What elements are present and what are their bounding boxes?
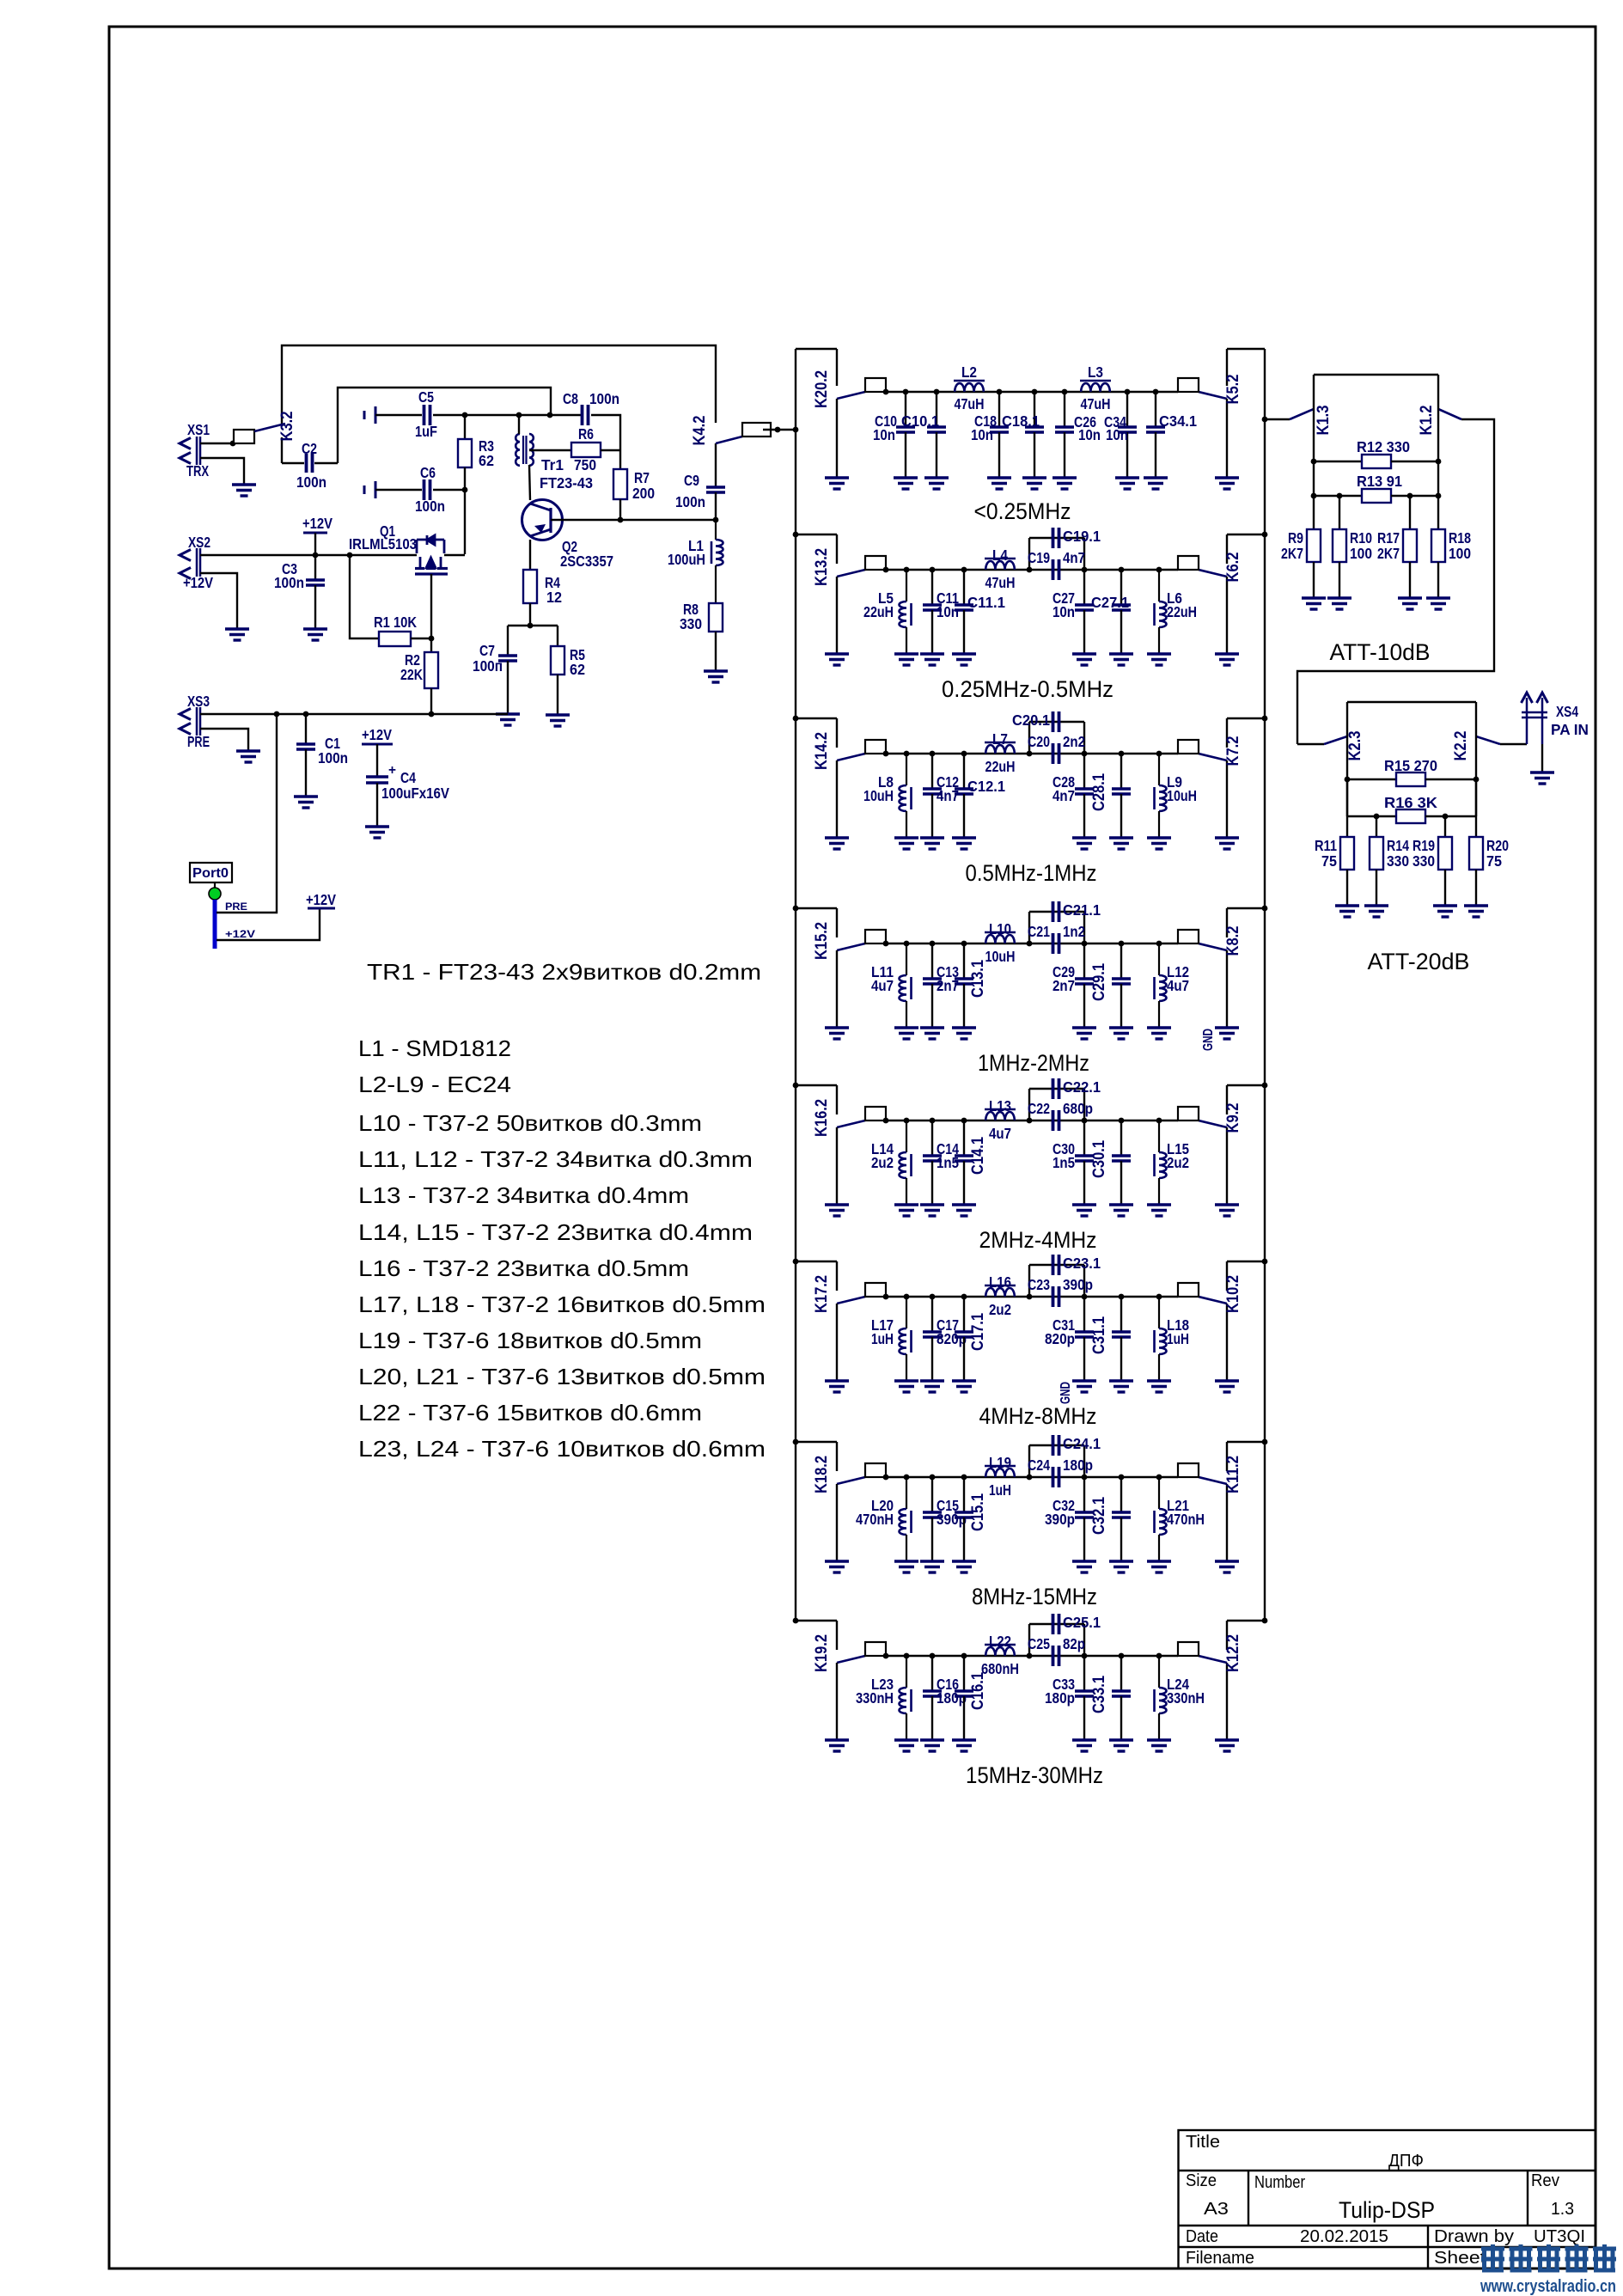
svg-text:+12V: +12V	[225, 928, 255, 940]
ground	[1426, 598, 1450, 609]
junction	[1119, 941, 1125, 947]
capacitor C13 (2n7)	[923, 943, 942, 1028]
svg-text:C2: C2	[302, 440, 317, 457]
junction	[1119, 1118, 1125, 1124]
junction	[793, 427, 799, 433]
capacitor C14.1	[955, 1121, 973, 1205]
resistor R10 (100)	[1333, 496, 1346, 598]
svg-text:GND: GND	[1059, 1382, 1073, 1404]
svg-text:100n: 100n	[415, 498, 445, 515]
junction bus/K14.2	[793, 716, 799, 722]
svg-text:XS3: XS3	[187, 693, 210, 710]
svg-text:C18.1: C18.1	[1002, 412, 1040, 430]
junction	[547, 412, 553, 418]
ground	[987, 478, 1011, 489]
svg-text:10uH: 10uH	[1167, 787, 1197, 804]
relay contact K13.2	[796, 534, 886, 654]
svg-text:330: 330	[1387, 852, 1409, 870]
ground (K18.2)	[825, 1561, 849, 1572]
connector XS3 (PRE)	[180, 707, 200, 736]
svg-text:+: +	[388, 763, 396, 778]
junction	[1374, 814, 1380, 820]
wire emitter node	[508, 625, 558, 626]
resistor R2 (22K)	[424, 638, 438, 714]
capacitor C32 (390p)	[1075, 1477, 1094, 1561]
svg-text:PRE: PRE	[225, 901, 247, 913]
svg-text:L2: L2	[961, 363, 977, 381]
capacitor C16.1	[955, 1656, 973, 1740]
svg-text:XS4: XS4	[1556, 703, 1578, 720]
svg-text:L11, L12 - T37-2 34витка d0.3m: L11, L12 - T37-2 34витка d0.3mm	[358, 1146, 753, 1172]
svg-text:100п: 100п	[473, 657, 503, 675]
ground	[1147, 1205, 1171, 1216]
ground	[952, 838, 976, 849]
svg-text:C22: C22	[1028, 1100, 1050, 1117]
ground	[1072, 1205, 1096, 1216]
svg-text:C29.1: C29.1	[1090, 963, 1108, 1001]
svg-text:R20: R20	[1486, 837, 1509, 854]
junction	[1153, 389, 1159, 395]
svg-text:C34.1: C34.1	[1159, 412, 1197, 430]
junction	[903, 389, 909, 395]
junction	[618, 517, 624, 523]
relay contact K15.2	[796, 908, 886, 1028]
svg-text:C8: C8	[563, 390, 578, 407]
node stub (C6 input)	[363, 485, 366, 494]
ground	[1053, 478, 1077, 489]
capacitor C11.1	[955, 570, 973, 654]
wire Tr1 primary top	[518, 415, 520, 434]
svg-text:R6: R6	[578, 425, 594, 443]
svg-text:A3: A3	[1204, 2200, 1229, 2219]
svg-text:C14.1: C14.1	[969, 1137, 987, 1175]
svg-text:C21.1: C21.1	[1063, 901, 1101, 919]
relay contact K7.2	[1178, 718, 1265, 838]
transistor Q1 (IRLML5103)	[415, 535, 448, 574]
junction	[1407, 493, 1413, 499]
ground	[1147, 654, 1171, 665]
svg-text:L2-L9 - EC24: L2-L9 - EC24	[358, 1072, 511, 1097]
transistor Q2 (2SC3357)	[522, 500, 563, 540]
ground (K7.2)	[1215, 838, 1239, 849]
svg-text:R19: R19	[1412, 837, 1435, 854]
junction	[930, 751, 936, 757]
svg-text:390p: 390p	[1045, 1511, 1075, 1528]
ground	[920, 1561, 944, 1572]
svg-text:www.crystalradio.cn: www.crystalradio.cn	[1480, 2277, 1616, 2296]
inductor L9 (10uH)	[1155, 754, 1167, 838]
ground (K15.2)	[825, 1028, 849, 1039]
power +12V (port branch)	[308, 907, 335, 910]
inductor L4 (47uH)	[985, 559, 1016, 570]
svg-text:47uH: 47uH	[985, 574, 1016, 591]
ground	[1072, 1028, 1096, 1039]
svg-text:K2.2: K2.2	[1452, 731, 1470, 761]
wire stub to C6	[375, 489, 422, 491]
resistor R6 (750)	[571, 443, 620, 457]
svg-text:L3: L3	[1088, 363, 1103, 381]
wire filter line	[886, 1655, 1178, 1657]
capacitor C18	[990, 392, 1009, 478]
wire filter line	[886, 753, 1178, 754]
svg-text:C15.1: C15.1	[969, 1493, 987, 1531]
ground	[894, 478, 918, 489]
capacitor C7 (100n)	[498, 626, 517, 714]
junction bus/K9.2	[1262, 1083, 1268, 1089]
ground	[1144, 478, 1168, 489]
svg-text:C33.1: C33.1	[1090, 1676, 1108, 1713]
relay contact K16.2	[796, 1085, 886, 1205]
svg-text:10n: 10n	[1106, 426, 1128, 443]
capacitor C24.1	[1052, 1435, 1055, 1456]
ground (K6.2)	[1215, 654, 1239, 665]
junction	[1027, 1475, 1033, 1481]
svg-text:100n: 100n	[274, 574, 304, 591]
svg-text:C20.1: C20.1	[1012, 711, 1050, 729]
svg-text:100uFx16V: 100uFx16V	[381, 785, 449, 802]
ground	[894, 1028, 918, 1039]
relay contact K8.2	[1178, 908, 1265, 1028]
ground	[294, 797, 318, 808]
capacitor C23 (390p)	[1029, 1265, 1084, 1307]
capacitor C28 (4n7)	[1075, 754, 1094, 838]
svg-text:K4.2: K4.2	[691, 416, 709, 446]
wire left bus (relay commons)	[795, 349, 796, 1621]
ground	[1147, 838, 1171, 849]
junction	[904, 1475, 910, 1481]
svg-text:2SC3357: 2SC3357	[560, 553, 613, 570]
wire K2.2 to XS4	[1500, 743, 1527, 745]
wire XS3/PRE net	[200, 713, 508, 715]
ground (K13.2)	[825, 654, 849, 665]
capacitor C24 (180p)	[1029, 1445, 1084, 1487]
transformer Tr1 (FT23-43)	[516, 434, 534, 466]
junction	[1119, 1475, 1125, 1481]
svg-text:10uH: 10uH	[985, 948, 1016, 965]
wire ATT-20 bypass rail	[1347, 701, 1476, 703]
wire filter line row1	[886, 391, 1178, 393]
svg-text:820p: 820p	[1045, 1330, 1075, 1347]
junction	[883, 1475, 889, 1481]
ground	[920, 1381, 944, 1392]
capacitor C27 (10n)	[1075, 570, 1094, 654]
junction	[274, 711, 280, 717]
capacitor C30.1	[1112, 1121, 1131, 1205]
connector XS1 (TRX)	[180, 437, 200, 465]
svg-text:1uH: 1uH	[871, 1330, 894, 1347]
svg-text:K11.2: K11.2	[1224, 1456, 1242, 1493]
junction	[1027, 751, 1033, 757]
junction	[1156, 751, 1162, 757]
capacitor C25.1	[1052, 1614, 1055, 1634]
svg-text:C21: C21	[1028, 923, 1050, 940]
resistor R7 (200)	[613, 469, 627, 519]
wire C6 to R3	[433, 489, 465, 491]
ground	[546, 715, 570, 726]
svg-text:C19.1: C19.1	[1063, 528, 1101, 545]
svg-text:Number: Number	[1254, 2173, 1305, 2192]
ground	[232, 485, 256, 496]
wire filter line	[886, 1476, 1178, 1478]
wire XS1 shield	[200, 458, 244, 485]
capacitor C8 (100n)	[581, 405, 584, 425]
ground	[1464, 906, 1488, 917]
svg-text:Rev: Rev	[1531, 2171, 1559, 2190]
ground	[1115, 478, 1139, 489]
svg-text:K20.2: K20.2	[813, 370, 831, 408]
junction	[1311, 493, 1317, 499]
node stub (C5 input)	[363, 411, 366, 419]
junction	[930, 941, 936, 947]
svg-text:1.3: 1.3	[1551, 2200, 1574, 2219]
junction	[930, 1475, 936, 1481]
ground (K20.2)	[825, 478, 849, 489]
junction bus/K11.2	[1262, 1439, 1268, 1445]
junction	[904, 1294, 910, 1300]
svg-text:R15 270: R15 270	[1384, 757, 1437, 774]
svg-text:<0.25MHz: <0.25MHz	[974, 498, 1071, 524]
svg-text:Date: Date	[1186, 2227, 1218, 2246]
svg-text:100uH: 100uH	[668, 551, 705, 568]
svg-text:47uH: 47uH	[1081, 395, 1111, 412]
svg-text:C30.1: C30.1	[1090, 1140, 1108, 1178]
junction	[1027, 567, 1033, 573]
inductor L13 (4u7)	[985, 1109, 1016, 1121]
svg-text:C11.1: C11.1	[967, 594, 1005, 611]
resistor R5 (62)	[551, 626, 564, 715]
junction	[230, 441, 236, 447]
inductor L6 (22uH)	[1155, 570, 1167, 654]
junction	[313, 553, 319, 559]
wire C2 to C8 node	[338, 388, 551, 463]
wire ATT-10 bypass rail	[1314, 374, 1438, 376]
ground	[1072, 1561, 1096, 1572]
junction	[1156, 1294, 1162, 1300]
svg-text:62: 62	[570, 661, 585, 678]
relay contact K3.2	[234, 412, 296, 464]
junction bus/K12.2	[1262, 1618, 1268, 1624]
junction	[1156, 1653, 1162, 1659]
svg-text:UT3QI: UT3QI	[1534, 2227, 1585, 2246]
svg-text:330nH: 330nH	[1167, 1689, 1205, 1707]
svg-text:100n: 100n	[675, 493, 705, 510]
svg-text:Filename: Filename	[1186, 2249, 1254, 2268]
svg-text:K5.2: K5.2	[1224, 375, 1242, 405]
svg-text:L19: L19	[989, 1454, 1011, 1471]
relay contact K10.2	[1178, 1261, 1265, 1381]
junction	[883, 1294, 889, 1300]
ground	[894, 1205, 918, 1216]
capacitor C28.1	[1112, 754, 1131, 838]
junction	[1082, 1118, 1088, 1124]
ground	[1109, 1028, 1133, 1039]
svg-text:Drawn by: Drawn by	[1434, 2227, 1514, 2246]
ground	[1109, 1205, 1133, 1216]
svg-text:1uH: 1uH	[989, 1481, 1011, 1499]
wire C9 to collector node	[715, 492, 717, 520]
svg-text:4u7: 4u7	[871, 977, 894, 994]
capacitor C21 (1n2)	[1029, 912, 1084, 954]
svg-text:L14, L15 - T37-2 23витка d0.4m: L14, L15 - T37-2 23витка d0.4mm	[358, 1219, 753, 1245]
junction	[1119, 1294, 1125, 1300]
capacitor C13.1	[955, 943, 973, 1028]
ground (K11.2)	[1215, 1561, 1239, 1572]
wire top rail	[282, 345, 716, 424]
ground (K14.2)	[825, 838, 849, 849]
junction	[1156, 941, 1162, 947]
wire +12V branch	[217, 908, 320, 940]
ground (K5.2)	[1215, 478, 1239, 489]
resistor R14 (330)	[1370, 816, 1383, 906]
ground	[920, 654, 944, 665]
capacitor C6 (100n)	[423, 479, 426, 500]
ground	[1072, 654, 1096, 665]
junction bus/K8.2	[1262, 906, 1268, 912]
wire C5 to C8	[433, 414, 581, 416]
svg-text:R7: R7	[634, 469, 650, 486]
capacitor C17 (820p)	[923, 1297, 942, 1381]
svg-text:82p: 82p	[1063, 1635, 1085, 1652]
svg-text:200: 200	[632, 485, 655, 502]
inductor L7 (22uH)	[985, 742, 1016, 754]
svg-text:K14.2: K14.2	[813, 732, 831, 770]
resistor R15 (270)	[1347, 772, 1476, 816]
junction	[930, 567, 936, 573]
wire Port0 bus (blue)	[213, 900, 217, 949]
svg-text:C27.1: C27.1	[1091, 594, 1129, 611]
junction bus/K15.2	[793, 906, 799, 912]
resistor R9 (2K7)	[1307, 529, 1321, 598]
junction	[1082, 1294, 1088, 1300]
svg-text:C20: C20	[1028, 733, 1050, 750]
wire stub to C5	[375, 414, 422, 416]
svg-text:R13 91: R13 91	[1357, 473, 1402, 490]
junction	[961, 567, 967, 573]
svg-text:R14: R14	[1387, 837, 1409, 854]
inductor L18 (1uH)	[1155, 1297, 1167, 1381]
wire Q2 collector	[551, 519, 716, 521]
capacitor C19 (4n7)	[1029, 538, 1084, 580]
svg-text:680nH: 680nH	[981, 1660, 1019, 1677]
ground	[365, 827, 389, 838]
relay contact K17.2	[796, 1261, 886, 1381]
svg-text:+12V: +12V	[302, 515, 333, 532]
svg-text:C13.1: C13.1	[969, 960, 987, 998]
inductor L15 (2u2)	[1155, 1121, 1167, 1205]
ground	[1433, 906, 1457, 917]
capacitor C2 (100n)	[282, 454, 338, 473]
svg-text:Sheet: Sheet	[1434, 2249, 1486, 2268]
junction	[930, 1294, 936, 1300]
wire filter line	[886, 943, 1178, 944]
junction	[883, 1653, 889, 1659]
capacitor C21.1	[1052, 901, 1055, 922]
inductor L8 (10uH)	[900, 754, 912, 838]
svg-text:10n: 10n	[971, 426, 993, 443]
wire Q1 gate	[430, 574, 432, 638]
svg-text:ATT-10dB: ATT-10dB	[1330, 639, 1431, 665]
svg-text:Title: Title	[1186, 2133, 1220, 2152]
svg-text:K18.2: K18.2	[813, 1456, 831, 1493]
svg-text:22K: 22K	[400, 666, 423, 683]
svg-text:L1 - SMD1812: L1 - SMD1812	[358, 1035, 511, 1061]
svg-text:PA IN: PA IN	[1551, 721, 1589, 738]
junction	[1156, 1118, 1162, 1124]
capacitor C11 (10n)	[923, 570, 942, 654]
junction	[1345, 777, 1351, 783]
junction	[1027, 1294, 1033, 1300]
svg-text:750: 750	[574, 456, 596, 473]
svg-text:C22.1: C22.1	[1063, 1078, 1101, 1096]
svg-text:2K7: 2K7	[1377, 545, 1400, 562]
svg-text:4u7: 4u7	[1167, 977, 1189, 994]
svg-text:10n: 10n	[1053, 603, 1075, 620]
svg-text:FT23-43: FT23-43	[540, 474, 593, 492]
junction	[775, 427, 781, 433]
capacitor C1 (100n)	[296, 714, 315, 797]
capacitor C25 (82p)	[1029, 1624, 1084, 1666]
port Port0	[190, 863, 232, 888]
wire K4.2 to bus	[763, 429, 796, 430]
inductor L3 (47uH)	[1080, 381, 1111, 392]
svg-text:TR1 - FT23-43 2x9витков d0.2m: TR1 - FT23-43 2x9витков d0.2mm	[367, 959, 761, 985]
relay contact K1.3	[1290, 375, 1333, 529]
svg-text:IRLML5103: IRLML5103	[349, 535, 417, 553]
junction	[1027, 941, 1033, 947]
svg-text:L10 - T37-2 50витков d0.3mm: L10 - T37-2 50витков d0.3mm	[358, 1110, 702, 1136]
ground (K8.2)	[1215, 1028, 1239, 1039]
capacitor C20.1	[1052, 711, 1055, 732]
wire C8 to R7	[591, 415, 620, 469]
ground	[1530, 772, 1554, 784]
svg-text:XS2: XS2	[188, 534, 211, 551]
junction	[930, 1653, 936, 1659]
junction	[904, 1653, 910, 1659]
resistor R12 (330)	[1314, 455, 1438, 468]
junction	[1027, 1653, 1033, 1659]
resistor R20 (75)	[1469, 779, 1483, 906]
power +12V (C3 node)	[303, 532, 327, 534]
svg-text:L19 - T37-6 18витков d0.5mm: L19 - T37-6 18витков d0.5mm	[358, 1328, 702, 1353]
svg-text:K13.2: K13.2	[813, 548, 831, 586]
svg-text:8MHz-15MHz: 8MHz-15MHz	[972, 1584, 1097, 1609]
wire +12V to XS2 line	[314, 533, 316, 555]
svg-text:R11: R11	[1315, 837, 1337, 854]
svg-text:L16 - T37-2 23витка d0.5mm: L16 - T37-2 23витка d0.5mm	[358, 1255, 689, 1281]
junction	[961, 1475, 967, 1481]
svg-text:K3.2: K3.2	[278, 412, 296, 442]
wire ATT-10 output	[1297, 419, 1494, 744]
relay contact K5.2	[1178, 349, 1265, 478]
svg-text:PRE: PRE	[187, 733, 210, 750]
svg-text:L22 - T37-6 15витков d0.6mm: L22 - T37-6 15витков d0.6mm	[358, 1400, 702, 1426]
svg-text:K2.3: K2.3	[1346, 731, 1364, 761]
svg-text:C9: C9	[684, 472, 699, 489]
capacitor C10	[896, 392, 915, 478]
ground	[1147, 1561, 1171, 1572]
junction bus/K19.2	[793, 1618, 799, 1624]
ground	[920, 838, 944, 849]
svg-text:C19: C19	[1028, 549, 1050, 566]
relay contact K1.2	[1418, 375, 1461, 529]
svg-text:L10: L10	[989, 920, 1011, 937]
svg-text:1n5: 1n5	[1053, 1154, 1075, 1171]
junction	[347, 553, 353, 559]
svg-text:R18: R18	[1449, 529, 1471, 547]
ground	[1327, 598, 1351, 609]
junction	[713, 517, 719, 523]
relay contact K19.2	[796, 1621, 886, 1740]
